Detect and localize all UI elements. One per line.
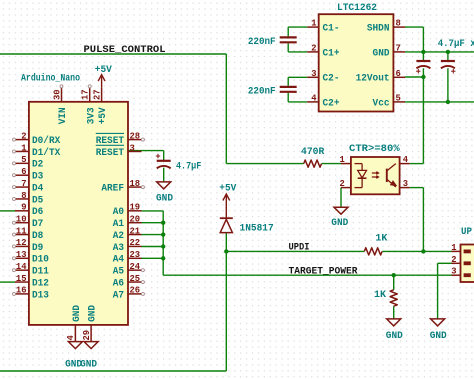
svg-text:UP: UP	[461, 227, 472, 238]
svg-text:1: 1	[21, 142, 27, 153]
svg-text:LTC1262: LTC1262	[337, 3, 377, 14]
svg-text:17: 17	[80, 89, 91, 100]
svg-text:D13: D13	[32, 290, 49, 301]
svg-text:D4: D4	[32, 183, 43, 194]
svg-text:GND: GND	[430, 331, 447, 342]
svg-text:19: 19	[130, 202, 141, 213]
svg-text:D10: D10	[32, 255, 49, 266]
svg-text:5: 5	[21, 154, 27, 165]
svg-text:4.7µF x: 4.7µF x	[438, 39, 474, 50]
svg-text:GND: GND	[156, 194, 173, 205]
svg-text:25: 25	[130, 273, 141, 284]
svg-text:D1/TX: D1/TX	[32, 147, 60, 159]
svg-text:1: 1	[451, 242, 457, 253]
svg-text:+5V: +5V	[98, 107, 109, 124]
svg-text:1: 1	[340, 154, 346, 165]
svg-text:A7: A7	[113, 290, 124, 301]
svg-text:RESET: RESET	[96, 148, 124, 159]
svg-text:+5V: +5V	[95, 65, 112, 76]
svg-text:TARGET_POWER: TARGET_POWER	[289, 266, 358, 277]
svg-text:22: 22	[130, 237, 141, 248]
svg-text:28: 28	[130, 130, 141, 141]
svg-text:1: 1	[311, 18, 317, 29]
svg-text:7: 7	[396, 42, 402, 53]
svg-text:220nF: 220nF	[248, 86, 276, 97]
svg-text:D11: D11	[32, 267, 49, 278]
svg-text:16: 16	[16, 285, 27, 296]
svg-text:3: 3	[130, 142, 136, 153]
svg-text:1N5817: 1N5817	[240, 224, 274, 235]
svg-text:D5: D5	[32, 195, 43, 206]
svg-text:3: 3	[403, 178, 409, 189]
svg-text:PULSE_CONTROL: PULSE_CONTROL	[84, 45, 166, 56]
svg-text:A6: A6	[113, 278, 124, 289]
svg-text:A5: A5	[113, 267, 124, 278]
svg-text:12Vout: 12Vout	[356, 74, 390, 85]
svg-text:GND: GND	[88, 305, 99, 322]
svg-text:GND: GND	[331, 218, 348, 229]
svg-text:2: 2	[21, 130, 27, 141]
svg-text:4: 4	[311, 92, 317, 103]
svg-text:2: 2	[451, 254, 457, 265]
svg-text:C2+: C2+	[323, 98, 340, 109]
svg-text:AREF: AREF	[101, 183, 124, 194]
svg-text:D12: D12	[32, 278, 49, 289]
svg-text:3: 3	[451, 266, 457, 277]
svg-text:A0: A0	[113, 207, 124, 218]
svg-text:D2: D2	[32, 160, 43, 171]
svg-text:1K: 1K	[374, 290, 386, 301]
svg-text:10: 10	[16, 213, 27, 224]
svg-text:24: 24	[130, 261, 141, 272]
svg-text:26: 26	[130, 285, 141, 296]
svg-text:D9: D9	[32, 243, 43, 254]
svg-text:D8: D8	[32, 231, 43, 242]
svg-text:A2: A2	[113, 231, 124, 242]
svg-text:VIN: VIN	[58, 107, 69, 124]
svg-text:30: 30	[51, 89, 62, 100]
svg-text:18: 18	[130, 178, 141, 189]
svg-text:4: 4	[403, 154, 409, 165]
svg-text:Arduino_Nano: Arduino_Nano	[21, 73, 80, 85]
svg-text:GND: GND	[386, 331, 403, 342]
svg-text:GND: GND	[72, 305, 83, 322]
svg-text:UPDI: UPDI	[289, 243, 310, 254]
svg-text:4.7µF: 4.7µF	[176, 161, 201, 172]
svg-text:1K: 1K	[375, 233, 387, 244]
svg-text:11: 11	[16, 225, 27, 236]
svg-text:13: 13	[16, 249, 27, 260]
svg-text:14: 14	[16, 261, 27, 272]
svg-text:7: 7	[21, 178, 27, 189]
svg-text:21: 21	[130, 225, 141, 236]
svg-text:9: 9	[21, 202, 27, 213]
svg-text:D3: D3	[32, 172, 43, 183]
svg-text:4: 4	[65, 335, 76, 341]
svg-text:SHDN: SHDN	[367, 24, 390, 35]
svg-text:Vcc: Vcc	[373, 98, 390, 109]
svg-text:220nF: 220nF	[248, 37, 276, 48]
svg-text:8: 8	[396, 18, 402, 29]
svg-text:6: 6	[21, 166, 27, 177]
svg-text:A4: A4	[113, 255, 124, 266]
svg-text:15: 15	[16, 273, 27, 284]
svg-text:8: 8	[21, 190, 27, 201]
svg-text:27: 27	[91, 89, 102, 100]
svg-text:C1-: C1-	[323, 24, 340, 35]
svg-text:5: 5	[396, 92, 402, 103]
svg-text:3V3: 3V3	[86, 107, 97, 124]
svg-text:6: 6	[396, 68, 402, 79]
svg-text:23: 23	[130, 249, 141, 260]
svg-text:29: 29	[81, 330, 92, 341]
svg-text:12: 12	[16, 237, 27, 248]
svg-text:D0/RX: D0/RX	[32, 135, 60, 147]
svg-text:CTR>=80%: CTR>=80%	[349, 144, 400, 155]
svg-text:C1+: C1+	[323, 48, 340, 59]
svg-text:D6: D6	[32, 207, 43, 218]
svg-text:C2-: C2-	[323, 74, 340, 85]
svg-text:A3: A3	[113, 243, 124, 254]
svg-text:GND: GND	[80, 359, 97, 370]
svg-text:3: 3	[311, 68, 317, 79]
svg-text:20: 20	[130, 213, 141, 224]
svg-text:D7: D7	[32, 219, 43, 230]
svg-text:GND: GND	[373, 48, 390, 59]
svg-text:A1: A1	[113, 219, 124, 230]
svg-text:+5V: +5V	[219, 183, 236, 194]
svg-text:470R: 470R	[301, 147, 324, 158]
svg-text:2: 2	[340, 178, 346, 189]
svg-text:2: 2	[311, 42, 317, 53]
